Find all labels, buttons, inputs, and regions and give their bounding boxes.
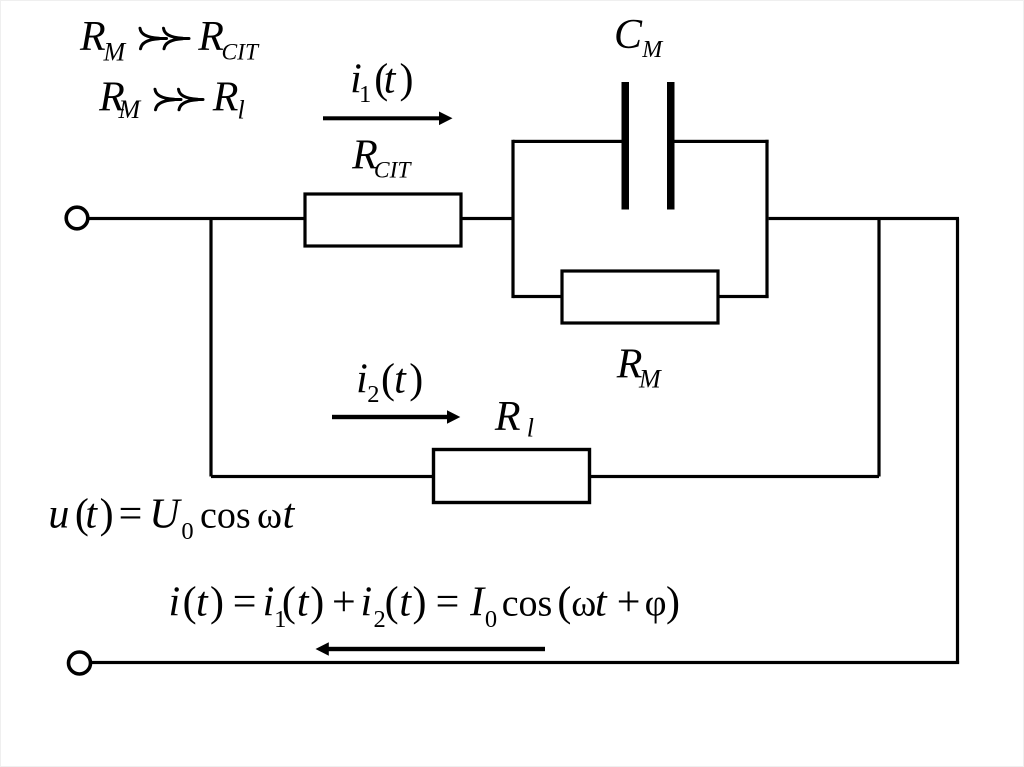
label Rl <box>494 394 534 443</box>
wire: lower branch right segment <box>590 475 880 478</box>
capacitor CM plate left <box>622 82 630 210</box>
svg-text:): ) <box>400 57 414 103</box>
svg-text:(: ( <box>381 357 395 403</box>
terminal top <box>66 207 88 229</box>
svg-text:cos: cos <box>200 495 251 537</box>
svg-text:φ: φ <box>645 582 667 624</box>
svg-text:i: i <box>169 579 181 625</box>
svg-text:): ) <box>210 579 224 625</box>
svg-text:=: = <box>233 579 257 625</box>
wire: top terminal to RCIT <box>88 217 305 220</box>
svg-text:CIT: CIT <box>374 158 413 184</box>
svg-text:R: R <box>197 14 224 60</box>
current arrow i2 <box>332 410 460 424</box>
svg-text:): ) <box>413 579 427 625</box>
svg-text:1: 1 <box>359 81 371 108</box>
label RCIT <box>351 132 412 183</box>
svg-text:R: R <box>212 75 239 121</box>
resistor Rl <box>434 450 590 503</box>
svg-text:l: l <box>527 414 534 443</box>
current arrow i (return, pointing left) <box>316 642 546 655</box>
wire: RCIT to parallel block <box>461 217 514 220</box>
wire: block top right segment <box>671 140 769 143</box>
svg-text:M: M <box>103 38 127 67</box>
capacitor CM plate right <box>667 82 675 210</box>
formula i(t) = i1(t) + i2(t) = I0 cos(wt + phi) <box>169 579 681 633</box>
svg-text:t: t <box>595 579 608 625</box>
svg-text:cos: cos <box>502 582 553 624</box>
svg-text:I: I <box>469 579 486 625</box>
svg-text:t: t <box>196 579 209 625</box>
svg-text:t: t <box>297 579 310 625</box>
terminal bottom <box>69 652 91 674</box>
svg-text:0: 0 <box>485 606 497 633</box>
label CM <box>614 12 664 63</box>
wire: far right vertical <box>956 219 959 664</box>
svg-text:t: t <box>283 492 296 538</box>
wire: block top left segment <box>513 140 625 143</box>
wire: branch right vertical x=879 <box>877 219 880 477</box>
svg-text:2: 2 <box>367 381 379 408</box>
svg-text:(: ( <box>557 579 571 625</box>
current arrow i1 <box>323 112 453 126</box>
svg-text:t: t <box>399 579 412 625</box>
svg-text:=: = <box>119 492 143 538</box>
svg-text:+: + <box>332 579 356 625</box>
svg-text:): ) <box>666 579 680 625</box>
svg-text:C: C <box>614 12 643 58</box>
svg-text:i: i <box>263 579 275 625</box>
svg-text:M: M <box>638 365 662 394</box>
formula RM much-greater-than RCIT <box>79 14 260 67</box>
svg-text:U: U <box>149 492 182 538</box>
wire: tee vertical at x=211 <box>209 219 212 477</box>
label RM <box>616 342 662 394</box>
current label i2(t) <box>356 357 423 408</box>
svg-text:u: u <box>48 492 69 538</box>
svg-text:ω: ω <box>257 495 282 537</box>
svg-text:0: 0 <box>181 518 193 545</box>
wire: block left vertical <box>511 140 514 298</box>
svg-text:ω: ω <box>571 582 596 624</box>
svg-text:(: ( <box>385 579 399 625</box>
svg-text:(: ( <box>282 579 296 625</box>
formula u(t) = U0 cos wt <box>48 492 295 546</box>
svg-text:l: l <box>238 96 245 125</box>
wire: block bottom left segment <box>513 295 563 298</box>
svg-text:CIT: CIT <box>222 40 261 66</box>
svg-text:t: t <box>394 357 407 403</box>
svg-text:t: t <box>384 57 397 103</box>
wire: block right vertical <box>765 140 768 298</box>
svg-text:R: R <box>79 14 106 60</box>
resistor RCIT <box>305 194 461 246</box>
svg-text:): ) <box>310 579 324 625</box>
svg-text:+: + <box>617 579 641 625</box>
svg-text:M: M <box>118 95 142 124</box>
formula RM much-greater-than Rl <box>98 75 245 125</box>
wire: block bottom right segment <box>718 295 769 298</box>
svg-text:R: R <box>494 394 521 440</box>
svg-text:(: ( <box>183 579 197 625</box>
svg-text:): ) <box>100 492 114 538</box>
svg-text:=: = <box>436 579 460 625</box>
svg-text:): ) <box>409 357 423 403</box>
resistor RM <box>562 271 718 323</box>
wire: bottom return <box>91 661 960 664</box>
svg-text:M: M <box>641 37 664 63</box>
svg-text:i: i <box>361 579 373 625</box>
svg-text:t: t <box>85 492 98 538</box>
wire: block to far right <box>769 217 959 220</box>
wire: lower branch left segment <box>211 475 434 478</box>
current label i1(t) <box>350 57 413 109</box>
svg-text:i: i <box>356 357 368 403</box>
